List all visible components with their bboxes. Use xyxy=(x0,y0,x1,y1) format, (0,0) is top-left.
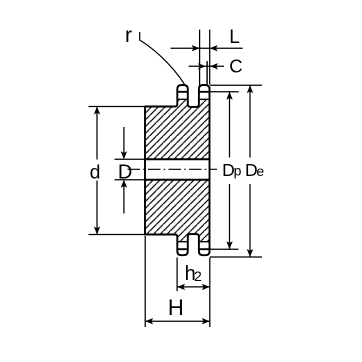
Dp arrow down xyxy=(226,241,232,249)
C dimension line xyxy=(189,65,225,67)
root line across bottom teeth xyxy=(177,241,209,243)
right edge extension down (H / h2) xyxy=(209,258,211,328)
svg-text:2: 2 xyxy=(194,268,202,284)
bore bottom extension line xyxy=(115,179,146,181)
h2 arrow right xyxy=(202,284,210,290)
H arrow right xyxy=(202,318,210,324)
bore bottom line xyxy=(144,179,209,181)
h2 extension line xyxy=(176,258,178,292)
h2 dimension line xyxy=(177,286,210,288)
L arrow right xyxy=(210,45,218,51)
De outer-diameter extension line top xyxy=(210,84,262,86)
svg-text:D: D xyxy=(118,161,132,183)
d arrow up xyxy=(94,107,100,115)
svg-text:p: p xyxy=(234,163,242,179)
L dimension line xyxy=(171,47,243,49)
bore top line xyxy=(144,158,209,160)
pitch line across bottom teeth xyxy=(177,248,209,250)
C reference line (short) xyxy=(206,61,208,84)
svg-text:d: d xyxy=(90,161,101,183)
Dp arrow up xyxy=(226,92,232,100)
De dimension line xyxy=(249,85,251,257)
svg-text:H: H xyxy=(168,295,184,320)
body outline upper (hub top + top teeth) xyxy=(145,85,210,107)
body left edge xyxy=(144,106,146,236)
svg-text:e: e xyxy=(256,163,264,179)
svg-text:C: C xyxy=(229,55,242,76)
hub bottom extension line xyxy=(89,234,146,236)
D dimension arrow line above xyxy=(123,127,125,158)
C arrow left xyxy=(198,63,206,69)
pitch line across top teeth xyxy=(177,91,209,93)
d dimension line xyxy=(96,107,98,235)
H arrow left xyxy=(145,318,153,324)
svg-text:L: L xyxy=(229,27,240,48)
h2 arrow left xyxy=(177,284,185,290)
bore top extension line xyxy=(115,158,146,160)
H dimension line xyxy=(145,320,210,322)
Dp pitch-diameter extension line top xyxy=(210,91,239,93)
De outer-diameter extension line bottom xyxy=(210,256,262,258)
svg-text:r: r xyxy=(125,24,132,47)
D dimension arrow line below xyxy=(123,181,125,214)
De arrow down xyxy=(247,249,253,257)
hub top extension line xyxy=(89,106,146,108)
D arrow pointing up to bore xyxy=(121,180,127,188)
H extension line left xyxy=(144,236,146,327)
L extension line right / body edge extension up xyxy=(209,30,211,85)
d arrow down xyxy=(94,227,100,235)
Dp dimension line xyxy=(229,92,231,249)
L extension line left xyxy=(199,30,201,87)
hatched section area of sprocket body xyxy=(145,99,210,241)
root line across top teeth xyxy=(177,98,209,100)
C arrow right xyxy=(210,63,218,69)
leader line from r to tooth tip radius xyxy=(140,32,185,85)
De arrow up xyxy=(247,85,253,93)
centerline (dash-dot) xyxy=(128,168,218,170)
body outline lower (hub bottom + bottom teeth) xyxy=(145,234,210,255)
body right edge xyxy=(209,87,211,253)
L arrow left xyxy=(192,45,200,51)
Dp pitch-diameter extension line bottom xyxy=(210,248,239,250)
D arrow pointing down to bore xyxy=(121,151,127,159)
